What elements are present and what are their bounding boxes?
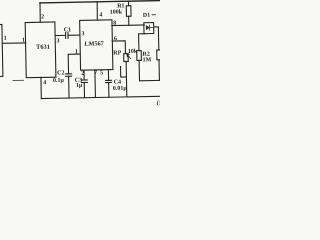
svg-text:1μ: 1μ bbox=[76, 83, 83, 89]
resistor R1 bbox=[126, 6, 131, 17]
capacitor C2 bbox=[66, 73, 72, 75]
svg-text:3: 3 bbox=[56, 38, 59, 44]
svg-text:100k: 100k bbox=[110, 9, 123, 15]
wire LM567 pin1 to C2 bbox=[68, 54, 80, 74]
wire R2 bottom to right edge bbox=[139, 60, 161, 81]
wire RP to ground rail bbox=[125, 77, 127, 96]
svg-text:2: 2 bbox=[41, 14, 44, 20]
capacitor C1 bbox=[65, 32, 67, 38]
svg-text:D1: D1 bbox=[143, 13, 150, 19]
LED D1 in box bbox=[144, 23, 154, 34]
svg-text:(1: (1 bbox=[157, 99, 160, 106]
wire C1 to LM567 pin3 bbox=[68, 34, 80, 36]
svg-text:5: 5 bbox=[100, 70, 103, 76]
wire LM567 pin4 to top rail bbox=[96, 2, 99, 20]
wire input box to T631 pin1 bbox=[2, 42, 25, 45]
svg-text:0.01μ: 0.01μ bbox=[113, 86, 128, 92]
wire top rail to R1 bbox=[127, 1, 129, 6]
svg-text:1: 1 bbox=[22, 38, 25, 44]
svg-text:6: 6 bbox=[114, 36, 117, 42]
resistor R2 bbox=[137, 51, 142, 61]
potentiometer RP wiper arrow bbox=[127, 54, 131, 58]
wire R3 to bottom node bbox=[158, 60, 160, 81]
svg-text:C4: C4 bbox=[114, 80, 121, 86]
capacitor C3 bbox=[81, 79, 87, 81]
wire C4 to ground rail bbox=[108, 82, 110, 97]
svg-text:1: 1 bbox=[4, 36, 7, 42]
svg-text:C1: C1 bbox=[64, 27, 71, 33]
svg-text:C2: C2 bbox=[57, 70, 64, 76]
capacitor C4 bbox=[106, 79, 112, 81]
wire LM567 pin2 to C3 bbox=[83, 70, 85, 80]
svg-text:LM567: LM567 bbox=[84, 40, 103, 47]
svg-text:10k: 10k bbox=[128, 49, 138, 55]
svg-text:T631: T631 bbox=[36, 44, 50, 51]
wire T631 pin4 to ground rail bbox=[40, 77, 42, 98]
IC T631 box bbox=[25, 22, 56, 78]
wire T631 pin3 to C1 bbox=[55, 34, 65, 36]
wire C3 to ground rail bbox=[83, 83, 85, 98]
wire LM567 pin8 to D1 bbox=[112, 24, 144, 27]
svg-text:7: 7 bbox=[94, 70, 97, 76]
wire R2 top to pin8 wire bbox=[139, 34, 145, 51]
svg-text:RP: RP bbox=[113, 50, 121, 56]
svg-text:0.1μ: 0.1μ bbox=[53, 78, 65, 84]
wire LM567 pin7 to ground rail bbox=[94, 70, 97, 98]
wire top V+ rail bbox=[40, 1, 160, 3]
wire ground rail bbox=[41, 96, 161, 98]
resistor R3 at right edge (cut off) bbox=[157, 50, 162, 60]
stub wire below input box bbox=[13, 79, 23, 81]
svg-text:2: 2 bbox=[81, 71, 84, 77]
svg-text:4: 4 bbox=[43, 80, 46, 86]
svg-text:4: 4 bbox=[99, 12, 102, 18]
wire RP lower lead bbox=[125, 61, 127, 76]
wire RP wiper loop bbox=[121, 66, 127, 77]
svg-text:3: 3 bbox=[81, 31, 84, 37]
wire D1 output to right edge bbox=[154, 27, 159, 50]
potentiometer RP body bbox=[124, 54, 129, 62]
svg-text:1M: 1M bbox=[143, 57, 152, 63]
wire R1 to pin8 node bbox=[128, 16, 130, 25]
wire T631 pin2 to top rail bbox=[39, 3, 41, 22]
svg-text:1: 1 bbox=[75, 49, 78, 55]
svg-text:8: 8 bbox=[113, 21, 116, 27]
wire LM567 pin6 to RP bbox=[112, 41, 125, 54]
wire C2 to ground rail bbox=[68, 76, 70, 98]
input box (cut off at left edge) bbox=[0, 24, 3, 76]
wire LM567 pin5 to C4 bbox=[107, 70, 109, 81]
IC LM567 box bbox=[80, 20, 113, 70]
